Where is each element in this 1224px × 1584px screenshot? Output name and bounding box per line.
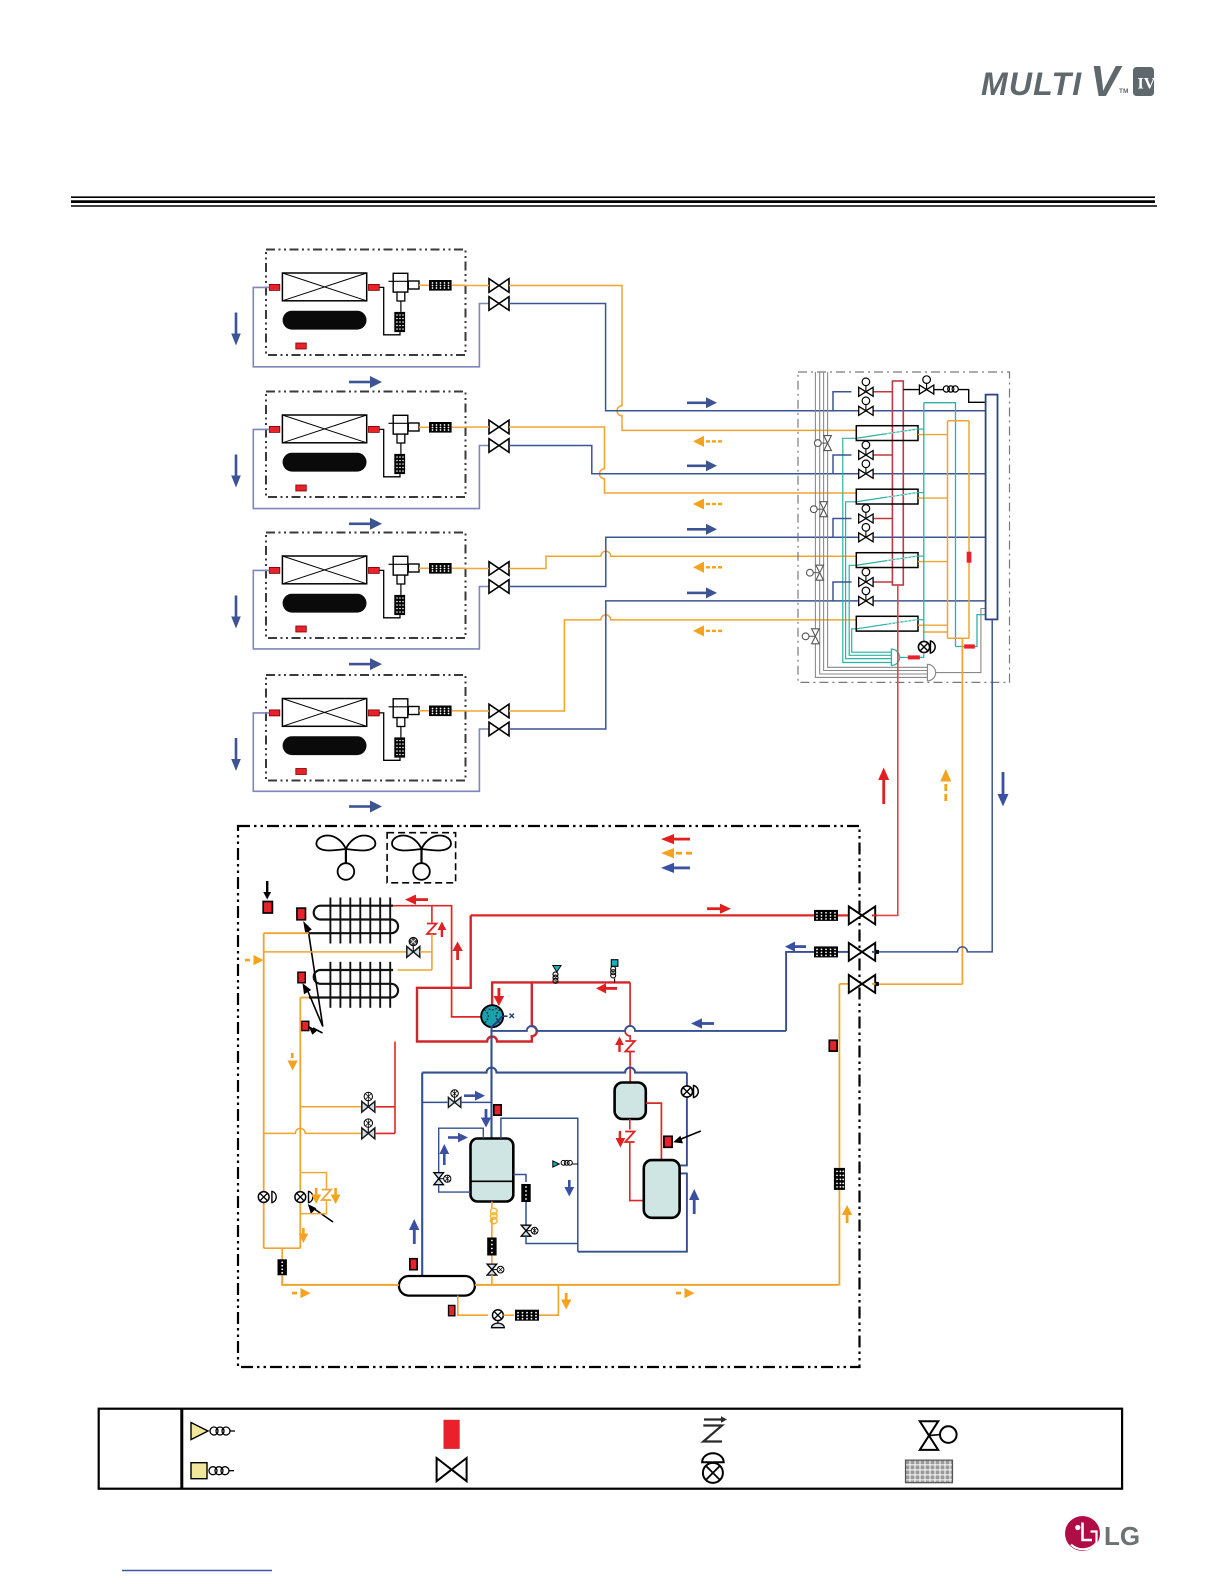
compressor 1: [471, 1139, 514, 1202]
dashed orange arrows on bus: [292, 1288, 311, 1298]
flow arrow down left of unit 1: [231, 313, 241, 346]
indoor unit 3 liquid service valve: [489, 562, 509, 576]
indoor unit 3 liquid pipe to HR: [509, 551, 856, 568]
oil loop arrows: [448, 1133, 468, 1143]
teal manifold: [891, 649, 899, 665]
sensor on liquid header: [967, 552, 972, 563]
check valve Z on discharge drop: [625, 1041, 634, 1052]
indoor unit 4 liquid service valve: [489, 704, 509, 718]
small down arrow col2: [299, 1228, 309, 1243]
LP return to 4-way: [492, 1026, 787, 1031]
flow arrow right below unit 1: [349, 376, 382, 388]
main LP header horizontal: [422, 1068, 687, 1073]
accumulator drain valve: [492, 1310, 505, 1328]
HR unit (heat recovery) box: [798, 372, 1010, 682]
HX 2 liquid outlet: [918, 497, 948, 499]
suction sensor: [494, 1105, 501, 1115]
suction line sensor: [410, 1259, 417, 1270]
HR liquid header verticals: [948, 420, 970, 422]
LP service valve: [849, 943, 875, 961]
divider rules: [71, 197, 1157, 206]
gas bus flow arrows: [687, 397, 717, 408]
check valve Z: [427, 924, 437, 935]
legend arrow orange dashed: [661, 848, 692, 858]
HR EEV 4 symbol: [802, 629, 819, 644]
indoor unit 4 gas pipe loop: [253, 713, 489, 791]
HR EEV 3 symbol: [807, 565, 824, 580]
HX4 extra liquid stub: [923, 631, 948, 633]
legend: service valve: [437, 1458, 467, 1481]
indoor unit 1 gas pipe loop: [253, 287, 489, 366]
HP service valve: [849, 906, 875, 924]
HR EEV 3 supply line (gray): [819, 372, 821, 565]
oil drain from accumulator: [458, 1296, 488, 1316]
LP service line inside: [786, 952, 814, 1031]
defrost drop with check valve: [431, 906, 433, 923]
HP service line: [471, 914, 814, 916]
liquid down to strainer: [281, 1248, 283, 1260]
condenser coil 1: [309, 906, 398, 934]
EEV bypass check branch: [300, 1173, 326, 1189]
lower LP run: [578, 1173, 687, 1251]
HR teal loop top run: [924, 403, 956, 647]
indoor unit 4 gas service valve: [489, 722, 509, 736]
sensor on liquid riser: [829, 1040, 837, 1051]
HR EEV 2 supply line (gray): [823, 372, 825, 502]
main liquid bottom bus: [475, 1284, 840, 1286]
compressor oil valve: [487, 1264, 504, 1275]
indoor unit 2 gas pipe loop: [253, 429, 489, 508]
oil solenoid on riser: [681, 1086, 698, 1098]
svg-text:V: V: [1090, 57, 1123, 106]
HR HP gas outlet down: [876, 585, 898, 915]
oil loop valve: [434, 1173, 451, 1185]
footer rule: [122, 1570, 272, 1572]
separator oil drain with check valve: [629, 1119, 631, 1130]
flow arrow liquid up (dashed orange): [940, 769, 951, 801]
injection branch over compressor: [501, 1118, 578, 1251]
compressor oil drain: [491, 1202, 493, 1209]
red down arrow to 4-way: [494, 988, 505, 1006]
flow arrow down left of unit 3: [231, 596, 241, 629]
HR subcool heat exchanger 1: [856, 426, 918, 441]
indoor unit 4 box: [266, 675, 466, 781]
discharge sensor: [664, 1136, 672, 1147]
HR unit 3 high-pressure gas branch: [833, 519, 852, 538]
HR unit 1 HP valve: [859, 378, 873, 396]
HR unit 4 HP valve: [859, 568, 873, 586]
HP service strainer: [814, 910, 838, 921]
4-way valve: [481, 1005, 503, 1027]
coil sensor S3: [298, 972, 305, 983]
legend: strainer: [906, 1460, 953, 1483]
pointer arrow to discharge sensor: [673, 1131, 701, 1143]
HR EEV 1 symbol: [814, 436, 831, 451]
HX 4 liquid outlet: [918, 624, 948, 626]
HR red header (high pressure gas): [892, 381, 903, 585]
liquid bus flow arrows (dashed): [693, 436, 722, 447]
HR subcool HX 3 teal return line: [849, 565, 891, 655]
accumulator: [399, 1276, 475, 1296]
HR subcool HX 4 teal return line: [852, 629, 892, 652]
red arrow left on discharge: [596, 983, 617, 993]
red arrow on HP service line: [707, 904, 731, 914]
legend arrow red: [661, 834, 690, 844]
svg-text:LG: LG: [1104, 1521, 1140, 1551]
pointer arrow to S2: [303, 921, 323, 1027]
HX 3 liquid outlet: [918, 561, 948, 563]
HX 2 teal outlet stub: [917, 492, 924, 494]
pointer arrow to S4: [308, 1026, 322, 1035]
accumulator feed vertical: [421, 1073, 423, 1277]
HR unit 3 HP valve: [859, 505, 873, 523]
condenser coil 2: [309, 970, 398, 998]
indoor unit 2 box: [266, 392, 466, 498]
orange up arrow riser: [842, 1205, 852, 1223]
indoor unit 2 liquid pipe to HR: [509, 427, 856, 493]
HR main liquid outlet down: [961, 638, 963, 984]
coil sensor S2: [297, 908, 306, 920]
HR subcool heat exchanger 3: [856, 553, 918, 568]
legend box: [99, 1409, 1122, 1489]
HR unit 2 HP valve: [859, 441, 873, 459]
legend: EEV (dome + circle-x): [702, 1453, 724, 1462]
HR teal subcool loop main vertical: [923, 403, 925, 642]
legend arrow blue: [661, 863, 690, 873]
flow arrow LP gas down: [998, 772, 1009, 807]
HR LP gas outlet down: [876, 619, 992, 952]
blue arrow on LP return: [691, 1018, 714, 1028]
defrost line: [264, 951, 406, 953]
liquid service riser: [838, 1190, 840, 1285]
compressor oil equalization loop: [439, 1128, 484, 1172]
indoor unit 4 liquid pipe to HR: [509, 615, 856, 711]
indoor unit 1 liquid service valve: [489, 279, 509, 293]
indoor unit 3 gas pipe to HR: [509, 537, 986, 586]
separator outlet to compressor 2: [646, 1103, 662, 1160]
legend: solenoid valve (hourglass+circle): [920, 1421, 938, 1450]
legend: check valve (Z with arrow): [703, 1420, 722, 1442]
orange down arrow near drain riser: [561, 1293, 571, 1310]
HR EEV 1 supply line (gray): [827, 372, 829, 436]
orange columns join: [264, 1247, 301, 1249]
HX 3 teal outlet stub: [917, 555, 924, 557]
oil return valve: [521, 1225, 538, 1236]
HR EEV 2 symbol: [810, 502, 827, 517]
HR unit 4 high-pressure gas branch: [833, 582, 852, 601]
fan 1: [316, 836, 375, 880]
blue arrow on LP service: [785, 942, 806, 952]
svg-text:TM: TM: [1119, 88, 1128, 95]
flow arrow right below unit 3: [349, 658, 382, 670]
outdoor unit box: [238, 826, 860, 1367]
liquid line column 2: [300, 997, 309, 999]
HX 1 liquid outlet: [918, 434, 948, 436]
liquid line column 1: [264, 932, 309, 934]
indoor unit 1 box: [266, 250, 466, 356]
indoor unit 1 gas pipe to HR: [509, 304, 986, 411]
coil1 to 4-way valve line: [393, 906, 482, 1017]
main HP loop (thick red): [417, 915, 537, 1041]
dashed orange arrow right: [245, 955, 264, 965]
hot gas bypass valve 1: [300, 1106, 361, 1108]
MULTI V logo: [981, 57, 1156, 106]
discharge line to oil separator: [532, 981, 630, 983]
unit 1 liquid stub: [466, 285, 490, 287]
blue down arrow on suction: [481, 1109, 491, 1128]
indoor unit 3 gas service valve: [489, 580, 509, 594]
pressure switch (square): [611, 960, 618, 967]
red up arrow near service riser: [452, 942, 462, 961]
flow arrow right below unit 2: [349, 518, 382, 530]
teal line EEV to manifold: [920, 653, 924, 658]
svg-text:MULTI: MULTI: [981, 66, 1082, 102]
fan 2: [392, 836, 451, 880]
HR subcool heat exchanger 2: [856, 489, 918, 504]
defrost solenoid valve: [407, 937, 420, 957]
HR unit 2 high-pressure gas branch: [833, 455, 852, 474]
HR oil valve: [919, 376, 933, 394]
pointer arrow to S3: [303, 983, 323, 1026]
compressor 2: [644, 1160, 680, 1218]
indoor unit 3 gas pipe loop: [253, 570, 489, 649]
HR unit 1 high-pressure gas branch: [833, 392, 852, 411]
sensor S1 arrow: [263, 881, 271, 900]
dashed orange arrow down col2: [288, 1053, 298, 1071]
HR oil capillary: [943, 386, 958, 392]
unit 4 liquid stub: [466, 710, 490, 712]
balance branch with service valve: [422, 1101, 447, 1103]
pointer arrow to EEV2: [308, 1204, 333, 1222]
sensor S1: [263, 902, 272, 914]
flow arrow down left of unit 4: [231, 738, 241, 771]
hot gas bypass valve 2: [264, 1128, 361, 1133]
red arrow on coil discharge: [405, 895, 428, 905]
HR teal loop bottom run to LP header: [956, 615, 986, 647]
HR subcool heat exchanger 4: [856, 616, 918, 631]
HR unit 1 LP valve: [859, 397, 873, 415]
indoor unit 4 gas pipe to HR: [509, 601, 986, 729]
bypass red riser: [394, 1042, 396, 1134]
indoor unit 3 box: [266, 533, 466, 639]
suction drop from 4-way: [490, 1026, 492, 1137]
gray manifold: [927, 664, 935, 680]
oil return strainer path: [513, 1175, 526, 1183]
HR oil return line (black): [903, 389, 919, 391]
flow arrow HP gas up: [878, 768, 889, 805]
coil sensor S4: [302, 1021, 309, 1030]
blue up arrow accumulator feed: [409, 1219, 419, 1244]
main EEV column2: [295, 1191, 313, 1202]
indoor unit 2 liquid service valve: [489, 420, 509, 434]
suction sensor (triangle+coil): [553, 1161, 559, 1167]
unit 2 liquid stub: [466, 426, 490, 428]
HR unit 4 LP valve: [859, 587, 873, 605]
flow arrow right below unit 4: [349, 801, 382, 813]
heater element on teal line: [964, 644, 975, 648]
indoor unit 1 liquid pipe to HR: [509, 286, 856, 431]
legend: sensor (red rect): [444, 1420, 460, 1449]
HX 1 teal outlet stub: [917, 428, 924, 430]
flow arrow down left of unit 2: [231, 455, 241, 488]
indoor unit 1 gas service valve: [489, 297, 509, 311]
svg-text:IV: IV: [1138, 76, 1156, 93]
fan 2 dashed box: [387, 833, 456, 883]
unit 3 liquid stub: [466, 568, 490, 570]
legend: pressure sensor (triangle+coil): [191, 1423, 208, 1440]
HR subcool HX 1 teal return line: [843, 438, 892, 662]
check valve up arrow: [438, 922, 447, 938]
HR LP gas header (blue bar): [986, 395, 998, 620]
legend: pressure switch (square+coil): [191, 1463, 207, 1479]
HR unit 3 LP valve: [859, 524, 873, 542]
liquid service valve: [849, 975, 875, 993]
HR subcool EEV: [918, 641, 935, 653]
bypass down arrows: [311, 1188, 321, 1204]
LG logo: [1065, 1516, 1140, 1551]
high pressure sensor (triangle): [553, 966, 561, 973]
HR subcool HX 2 teal return line: [846, 502, 892, 659]
HR EEV 4 supply line (gray): [814, 372, 816, 629]
blue up arrow right: [689, 1189, 699, 1214]
indoor unit 2 gas service valve: [489, 439, 509, 453]
main EEV column1: [258, 1191, 276, 1202]
oil separator: [615, 1083, 646, 1120]
HX 4 teal outlet stub: [917, 619, 924, 621]
blue down arrow on injection drop: [564, 1180, 574, 1197]
indoor unit 2 gas pipe to HR: [509, 446, 986, 474]
HR unit 2 LP valve: [859, 460, 873, 478]
gray manifold outlet to LP header: [936, 609, 986, 673]
